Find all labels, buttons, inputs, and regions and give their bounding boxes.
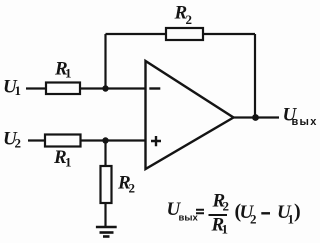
ground — [96, 227, 117, 237]
wire R1 to op-amp minus input — [80, 87, 145, 89]
op-amp U1 (triangle) — [146, 61, 234, 169]
svg-text:2: 2 — [223, 199, 230, 214]
node B (junction at non-inverting input) — [102, 137, 108, 143]
wire node B down to R2 — [104, 141, 106, 167]
wire U1 to R1 — [26, 87, 46, 89]
node output label U_vyx — [283, 105, 318, 129]
node U2 input label — [3, 129, 21, 151]
svg-text:2: 2 — [250, 212, 257, 227]
svg-text:вых: вых — [292, 116, 318, 128]
wire R2 to right corner — [203, 33, 255, 35]
wire R2 to ground — [104, 203, 106, 226]
svg-text:вых: вых — [179, 213, 199, 224]
wire R1 to op-amp plus input — [81, 139, 146, 141]
equals sign — [196, 210, 204, 214]
node U1 input label — [3, 77, 21, 99]
label R1 (top) — [54, 59, 72, 81]
resistor R2 (to ground, vertical) — [101, 166, 112, 203]
minus sign — [261, 212, 270, 214]
node A (junction at inverting input) — [102, 85, 108, 91]
wire op-amp output — [234, 116, 280, 118]
resistor R1 (top, inverting input) — [46, 83, 80, 95]
svg-text:1: 1 — [65, 66, 72, 81]
wire feedback vertical up from node A — [104, 34, 106, 89]
wire U2 to R1 — [28, 139, 45, 141]
wire feedback vertical down to output node — [254, 34, 256, 118]
label R2 (to ground) — [117, 173, 135, 196]
svg-text:1: 1 — [15, 83, 22, 98]
svg-text:2: 2 — [15, 136, 22, 151]
node output junction — [252, 114, 259, 121]
wire feedback horizontal to R2 — [106, 33, 167, 35]
svg-text:2: 2 — [129, 181, 136, 196]
fraction bar — [209, 214, 228, 216]
plus sign (non-inverting input) — [151, 136, 161, 146]
resistor R2 (feedback) — [166, 28, 203, 40]
minus sign (inverting input) — [149, 87, 160, 89]
svg-text:1: 1 — [222, 222, 229, 237]
svg-text:): ) — [294, 201, 301, 223]
svg-text:1: 1 — [65, 154, 72, 169]
resistor R1 (bottom, non-inverting input) — [45, 135, 81, 147]
label R1 (bottom) — [53, 147, 72, 169]
svg-text:2: 2 — [186, 12, 193, 27]
label R2 (feedback) — [174, 3, 193, 27]
formula U_vyx = R2/R1 (U2 - U1) — [167, 191, 301, 237]
